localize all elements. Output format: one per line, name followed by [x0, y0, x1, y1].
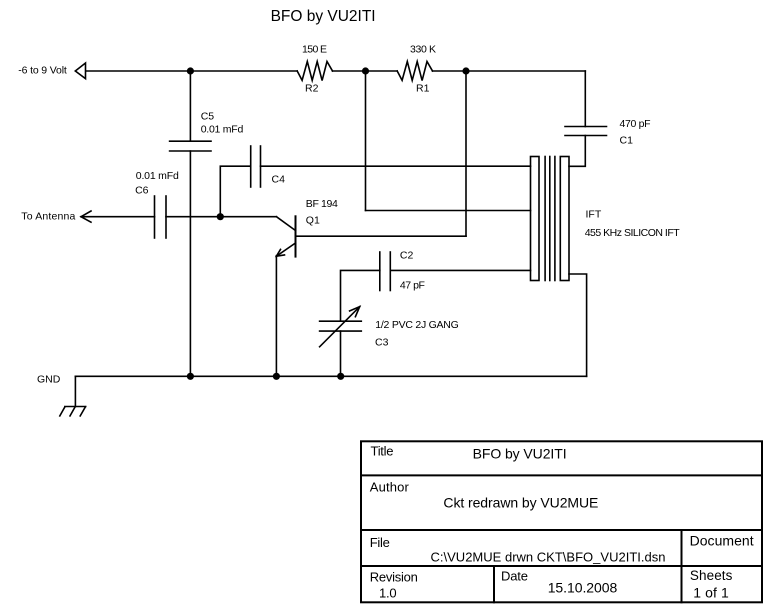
- wire C4 branch corner: [220, 166, 250, 217]
- node dot gnd-C5: [187, 373, 194, 380]
- svg-text:C3: C3: [375, 336, 389, 348]
- wire ground rail: [75, 375, 586, 377]
- wire rail corner down to C1: [584, 71, 586, 127]
- antenna arrow: [81, 211, 91, 222]
- svg-text:Revision: Revision: [370, 570, 418, 585]
- svg-text:R2: R2: [305, 83, 319, 95]
- IFT transformer: [531, 157, 540, 281]
- title block table: [361, 441, 762, 602]
- svg-text:C5: C5: [201, 111, 215, 123]
- svg-text:455 KHz SILICON IFT: 455 KHz SILICON IFT: [585, 227, 681, 239]
- svg-text:Q1: Q1: [306, 215, 320, 227]
- svg-text:BFO by VU2ITI: BFO by VU2ITI: [271, 8, 376, 25]
- node dot gnd-emitter: [273, 373, 280, 380]
- wire C2 to IFT bottom-left pin: [390, 269, 530, 271]
- node dot gnd-C3: [337, 373, 344, 380]
- node dot rail-C5: [187, 67, 194, 74]
- wire antenna to C6: [81, 216, 155, 218]
- wire C1 to IFT top-right pin: [569, 136, 585, 167]
- title heading: [271, 8, 376, 25]
- svg-text:Date: Date: [501, 569, 528, 584]
- svg-text:Title: Title: [371, 444, 394, 459]
- svg-text:47 pF: 47 pF: [400, 279, 425, 291]
- svg-text:0.01 mFd: 0.01 mFd: [136, 170, 179, 182]
- wire top power rail left segment: [86, 70, 298, 72]
- wire base lead diagonal: [276, 217, 295, 231]
- svg-text:C6: C6: [135, 185, 149, 197]
- svg-text:0.01 mFd: 0.01 mFd: [201, 124, 244, 136]
- svg-text:15.10.2008: 15.10.2008: [548, 580, 618, 596]
- power arrow -6 to 9 Volt: [75, 63, 85, 79]
- svg-text:C1: C1: [620, 135, 634, 147]
- svg-text:GND: GND: [37, 374, 61, 386]
- svg-text:C:\VU2MUE drwn CKT\BFO_VU2ITI.: C:\VU2MUE drwn CKT\BFO_VU2ITI.dsn: [431, 550, 666, 565]
- wire C5 branch lower to ground: [189, 151, 191, 376]
- svg-text:1.0: 1.0: [379, 586, 397, 601]
- svg-text:BFO by VU2ITI: BFO by VU2ITI: [473, 446, 567, 462]
- wire IFT bottom-right pin down: [569, 274, 587, 376]
- capacitor C6: [154, 196, 156, 238]
- svg-text:File: File: [370, 535, 390, 550]
- svg-text:BF 194: BF 194: [306, 198, 338, 210]
- wire rail right segment: [433, 70, 586, 72]
- wire R1-right node drop to collector: [465, 71, 467, 236]
- wire C5 branch upper: [189, 71, 191, 141]
- node dot rail R2-R1: [362, 67, 369, 74]
- resistor R1: [397, 62, 432, 81]
- wire emitter to ground: [275, 256, 277, 377]
- ground symbol: [74, 376, 76, 406]
- svg-text:1 of 1: 1 of 1: [693, 584, 729, 600]
- capacitor C5: [170, 140, 211, 142]
- capacitor C1: [565, 126, 607, 128]
- wire C2 corner: [341, 270, 380, 321]
- capacitor C2: [379, 252, 381, 291]
- svg-text:Document: Document: [690, 533, 754, 549]
- wire R1-R2 node drop: [365, 71, 367, 211]
- wire C4 to IFT top-left pin: [261, 165, 531, 167]
- transistor Q1: [295, 216, 297, 256]
- wire to IFT mid-left pin: [366, 210, 531, 212]
- svg-text:470 pF: 470 pF: [620, 118, 651, 130]
- variable capacitor C3: [320, 320, 362, 322]
- node dot rail R1-right: [462, 67, 469, 74]
- svg-text:Author: Author: [370, 480, 410, 495]
- resistor R2: [297, 62, 332, 81]
- svg-text:R1: R1: [416, 83, 430, 95]
- capacitor C4: [250, 146, 252, 187]
- svg-text:To Antenna: To Antenna: [21, 211, 75, 223]
- svg-text:330 K: 330 K: [410, 44, 436, 56]
- svg-text:Ckt redrawn by VU2MUE: Ckt redrawn by VU2MUE: [443, 495, 598, 511]
- svg-text:-6 to 9 Volt: -6 to 9 Volt: [18, 65, 67, 77]
- svg-text:C2: C2: [400, 250, 414, 262]
- svg-text:150 E: 150 E: [302, 44, 327, 56]
- node dot base: [217, 213, 224, 220]
- svg-text:C4: C4: [272, 174, 286, 186]
- svg-text:Sheets: Sheets: [690, 568, 733, 583]
- svg-text:1/2 PVC 2J GANG: 1/2 PVC 2J GANG: [375, 319, 459, 331]
- wire C6 to base node: [166, 216, 276, 218]
- wire rail between R2 and R1: [333, 70, 398, 72]
- wire collector: [296, 235, 467, 237]
- wire C3 to ground: [340, 331, 342, 376]
- svg-text:IFT: IFT: [586, 208, 602, 220]
